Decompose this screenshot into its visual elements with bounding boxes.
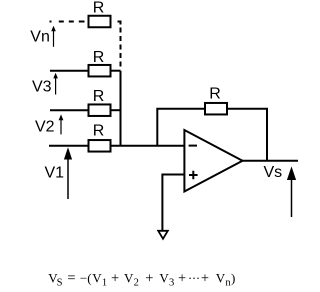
svg-text:R: R — [93, 0, 105, 17]
svg-text:V: V — [159, 270, 169, 285]
svg-text:2: 2 — [134, 277, 139, 288]
svg-text:3: 3 — [169, 277, 174, 288]
svg-text:V: V — [216, 270, 226, 285]
svg-text:V1: V1 — [45, 164, 65, 181]
svg-text:V: V — [92, 270, 102, 285]
svg-text:R: R — [93, 123, 105, 140]
svg-text:V: V — [124, 270, 134, 285]
svg-text:·: · — [196, 270, 200, 285]
svg-text:+: + — [201, 270, 209, 286]
svg-text:R: R — [93, 88, 105, 105]
svg-text:V2: V2 — [35, 119, 55, 136]
svg-text:Vs: Vs — [264, 164, 283, 181]
svg-text:V3: V3 — [32, 79, 52, 96]
svg-text:−(: −( — [80, 270, 92, 285]
svg-text:+: + — [111, 270, 119, 286]
svg-text:Vn: Vn — [30, 29, 50, 46]
svg-text:+: + — [145, 270, 153, 286]
svg-text:R: R — [93, 49, 105, 66]
svg-text:=: = — [67, 270, 75, 286]
svg-text:S: S — [57, 277, 63, 288]
svg-text:): ) — [231, 270, 235, 285]
svg-text:1: 1 — [102, 277, 107, 288]
svg-text:R: R — [209, 86, 221, 103]
svg-text:+: + — [178, 270, 186, 286]
